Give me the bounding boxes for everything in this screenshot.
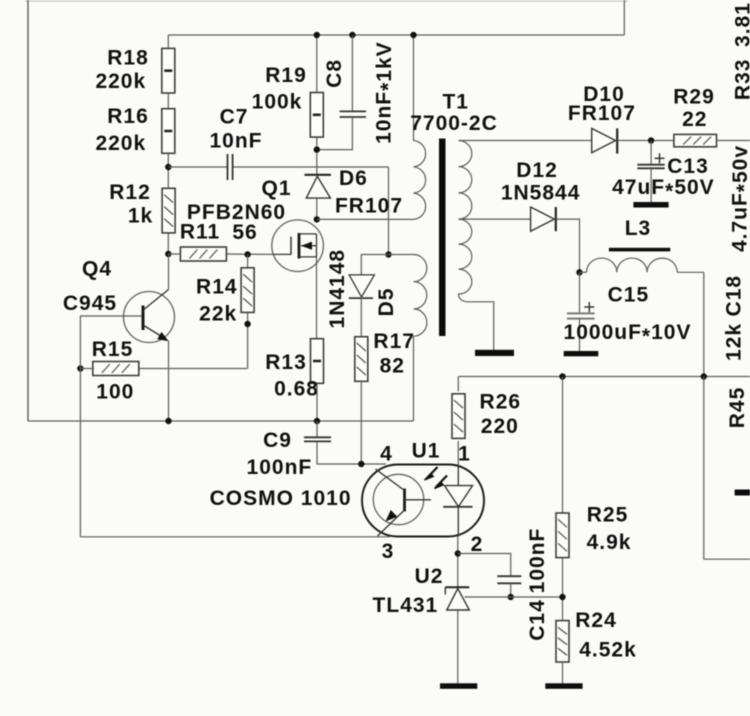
- svg-text:R12: R12: [109, 181, 151, 204]
- ground: C15: [564, 351, 599, 356]
- wire: bottom node rail y=421: [28, 420, 414, 422]
- wire: output rail y=376.5: [458, 376, 750, 378]
- svg-text:10nF*1kV: 10nF*1kV: [373, 41, 400, 144]
- svg-text:COSMO 1010: COSMO 1010: [210, 487, 352, 510]
- svg-text:4.52k: 4.52k: [579, 639, 637, 662]
- resistor R14: [241, 268, 254, 313]
- svg-text:R26: R26: [480, 391, 522, 414]
- transistor Q1 MOSFET: [272, 220, 324, 272]
- svg-text:R25: R25: [587, 504, 629, 527]
- node: emitter/rail dot: [165, 418, 171, 424]
- svg-text:C15: C15: [608, 284, 650, 307]
- wire: Q4 emitter vertical: [168, 341, 170, 422]
- svg-text:100k: 100k: [252, 91, 303, 114]
- svg-text:2: 2: [471, 533, 484, 556]
- node: R15 left dot: [77, 365, 83, 371]
- opto U1 light arrows: [427, 467, 438, 479]
- ground: secondary return: [475, 350, 514, 356]
- svg-text:C18: C18: [723, 275, 746, 317]
- svg-text:4: 4: [380, 443, 393, 466]
- opto U1 phototransistor: [373, 474, 423, 524]
- svg-text:4.7uF*50v: 4.7uF*50v: [729, 145, 750, 252]
- wire: C7 row y=167: [168, 166, 227, 168]
- svg-text:D5: D5: [375, 288, 398, 317]
- node: primary top bus dot: [410, 32, 416, 38]
- svg-text:1000uF*10V: 1000uF*10V: [564, 321, 692, 348]
- node: C14/ref dot: [508, 594, 514, 600]
- transformer T1 core: [439, 139, 446, 337]
- node: pin2/C14 dot: [455, 550, 461, 556]
- svg-text:3: 3: [382, 540, 395, 563]
- transformer T1 primary winding: [413, 35, 415, 141]
- transformer T1 feedback winding: [389, 254, 414, 256]
- node: divider junction dot: [165, 164, 171, 170]
- transistor Q4 C945: [124, 292, 175, 343]
- wire: left outer vertical rail: [27, 0, 29, 421]
- ground: right edge partial: [735, 490, 750, 496]
- svg-text:C9: C9: [263, 429, 292, 452]
- shunt regulator U2 TL431: [445, 586, 469, 588]
- svg-text:U1: U1: [412, 440, 441, 463]
- resistor R13: [311, 339, 324, 384]
- wire: right branch to R45 (off sheet): [704, 377, 750, 560]
- wire: R19 leads: [316, 35, 318, 92]
- node: R19/C8 bottom dot: [314, 146, 320, 152]
- capacitor C9: [316, 421, 318, 437]
- svg-text:0.68: 0.68: [274, 378, 319, 401]
- wire: C7 to feedback node vertical x=388.5: [388, 167, 390, 255]
- ground: TL431: [440, 683, 477, 689]
- wire: R14 leads: [247, 254, 249, 268]
- svg-text:22k: 22k: [199, 302, 237, 325]
- svg-text:100nF: 100nF: [526, 528, 549, 594]
- svg-text:R19: R19: [265, 64, 307, 87]
- resistor R25: [562, 377, 564, 513]
- svg-text:C14: C14: [526, 599, 549, 641]
- svg-text:1N5844: 1N5844: [501, 182, 581, 205]
- svg-text:C945: C945: [63, 292, 117, 315]
- svg-text:4.9k: 4.9k: [587, 531, 632, 554]
- diode D10 FR107: [592, 128, 616, 152]
- svg-text:U2: U2: [415, 565, 444, 588]
- svg-text:T1: T1: [442, 91, 469, 114]
- ground: R24: [545, 683, 582, 689]
- svg-text:Q4: Q4: [82, 258, 112, 281]
- wire: R13 bottom lead: [316, 383, 318, 421]
- node: gate/R14 junction dot: [244, 251, 250, 257]
- node: R17/pin4 row dot: [358, 461, 364, 467]
- svg-text:Q1: Q1: [261, 177, 291, 200]
- wire: opto pin3 row y=536.8: [80, 536, 390, 538]
- svg-text:R29: R29: [673, 86, 715, 109]
- svg-text:C13: C13: [667, 155, 709, 178]
- node: R25/R24/ref dot: [559, 594, 565, 600]
- wire: TL431 ref row y=597: [465, 596, 563, 598]
- svg-text:R13: R13: [265, 351, 307, 374]
- svg-text:D12: D12: [516, 159, 558, 182]
- wire: feedback winding bottom return: [413, 336, 415, 421]
- diode D6 FR107: [305, 174, 332, 176]
- capacitor C15 polarized: [579, 272, 581, 313]
- capacitor C14: [497, 575, 521, 577]
- wire: right vertical to top edge: [623, 0, 625, 35]
- node: R13/C9 rail dot: [314, 418, 320, 424]
- svg-text:10nF: 10nF: [209, 130, 262, 153]
- wire: drain row to primary winding: [317, 218, 414, 220]
- resistor R19: [310, 93, 323, 138]
- node: R14 bottom dot: [244, 321, 250, 327]
- diode D5 1N4148: [349, 275, 374, 297]
- wire: Q4 collector vertical: [168, 254, 170, 290]
- svg-text:R15: R15: [92, 338, 134, 361]
- svg-text:1: 1: [458, 443, 471, 466]
- resistor R16: [162, 109, 175, 154]
- node: C7/D5/feedback-winding dot: [385, 251, 391, 257]
- capacitor C8: [351, 35, 353, 111]
- svg-text:R14: R14: [196, 276, 238, 299]
- ground: C13: [633, 202, 668, 208]
- svg-text:R17: R17: [373, 330, 415, 353]
- resistor R26: [457, 377, 459, 392]
- svg-text:L3: L3: [625, 217, 652, 240]
- svg-text:D6: D6: [339, 167, 368, 190]
- capacitor C13 polarized: [650, 141, 652, 165]
- svg-text:FR107: FR107: [568, 102, 636, 125]
- svg-text:12k: 12k: [723, 323, 746, 361]
- inductor L3: [580, 271, 587, 273]
- transformer T1 secondary winding upper: [459, 141, 472, 220]
- svg-text:100nF: 100nF: [247, 456, 313, 479]
- resistor R15: [93, 362, 139, 376]
- svg-text:FR107: FR107: [335, 195, 403, 218]
- wire: R15 left lead: [80, 368, 94, 370]
- wire: R17 bottom lead crossing rail: [360, 380, 362, 464]
- wire: opto pin2 vertical: [457, 537, 459, 588]
- svg-text:47uF*50V: 47uF*50V: [612, 176, 715, 203]
- svg-text:82: 82: [380, 355, 405, 378]
- resistor R29: [674, 134, 717, 146]
- svg-text:22: 22: [682, 108, 707, 131]
- node: D10/C13/R29 dot: [648, 137, 654, 143]
- svg-text:220: 220: [481, 415, 519, 438]
- resistor R24: [556, 621, 569, 662]
- svg-text:100: 100: [96, 381, 134, 404]
- resistor R12: [162, 188, 175, 233]
- wire: L3 output down to +V rail: [703, 272, 705, 376]
- resistor R18: [162, 48, 175, 93]
- node: rail/R25 dot: [559, 373, 565, 379]
- svg-text:R33: R33: [732, 59, 750, 101]
- capacitor C7: [227, 154, 229, 180]
- wire: Q1 source down to R13: [316, 257, 318, 340]
- wire: secondary top row to D10: [459, 140, 592, 142]
- svg-text:7700-2C: 7700-2C: [410, 112, 498, 135]
- svg-text:R16: R16: [107, 105, 149, 128]
- svg-text:56: 56: [232, 221, 257, 244]
- svg-text:R18: R18: [107, 47, 149, 70]
- wire: R14 bottom across to R15: [138, 368, 248, 370]
- svg-text:PFB2N60: PFB2N60: [187, 201, 286, 224]
- opto U1 LED: [457, 465, 459, 486]
- resistor R11: [180, 247, 226, 261]
- resistor R17: [355, 337, 368, 382]
- wire: top supply bus y=35: [168, 34, 624, 36]
- node: R19 top bus dot: [314, 32, 320, 38]
- wire: R18 column leads: [167, 35, 169, 49]
- node: C8 top bus dot: [349, 32, 355, 38]
- node: D12/C15/L3 dot: [576, 269, 582, 275]
- node: Q1 drain / D6 anode dot: [314, 216, 320, 222]
- svg-text:3.81: 3.81: [732, 2, 750, 47]
- svg-text:C7: C7: [220, 106, 249, 129]
- page scan edge: [25, 0, 628, 2]
- transformer T1 secondary winding lower: [458, 219, 471, 302]
- svg-text:R24: R24: [575, 609, 617, 632]
- node: rail/right-branch dot: [701, 373, 707, 379]
- wire: to C14: [458, 554, 511, 577]
- opto U1 COSMO1010 body: [362, 465, 484, 537]
- svg-text:C8: C8: [323, 59, 346, 88]
- svg-text:1k: 1k: [128, 205, 153, 228]
- svg-text:TL431: TL431: [373, 594, 439, 617]
- svg-text:R45: R45: [726, 387, 749, 429]
- svg-text:220k: 220k: [95, 132, 146, 155]
- wire: secondary mid tap row to D12: [459, 218, 531, 220]
- wire: R11 leads: [168, 253, 180, 255]
- wire: to D5: [361, 255, 388, 275]
- node: R12/R11/Q4-collector junction dot: [165, 251, 171, 257]
- wire: Q4 base feed vertical x=80.4 down to opto pin3 row: [80, 316, 141, 537]
- diode D12 1N5844: [531, 207, 555, 231]
- svg-text:220k: 220k: [95, 70, 146, 93]
- svg-text:1N4148: 1N4148: [326, 249, 349, 329]
